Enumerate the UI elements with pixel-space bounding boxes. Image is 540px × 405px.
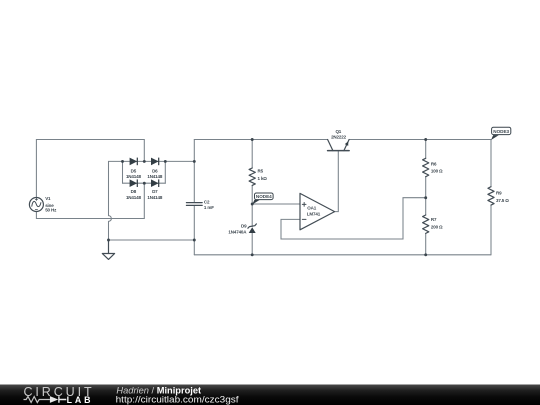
zener D9 cathode bar: [248, 224, 257, 228]
svg-text:2N2222: 2N2222: [331, 135, 347, 140]
resistor R7 zigzag: [423, 215, 429, 233]
wire bridge top row: [123, 160, 166, 162]
svg-text:R6: R6: [431, 161, 437, 166]
wire top rail right segment emitter to right rail: [349, 139, 491, 141]
junction node R6 R7 midpoint: [424, 196, 427, 199]
wire ground rail to loop left: [109, 239, 195, 241]
wire R6 R7 column leads: [425, 140, 427, 255]
svg-text:1 mF: 1 mF: [204, 205, 214, 210]
svg-text:1 kΩ: 1 kΩ: [258, 176, 268, 181]
zener D9 triangle: [249, 227, 256, 233]
wire op-amp output to Q1 base: [335, 151, 339, 212]
wire node4 to op-amp + input: [252, 203, 300, 205]
svg-text:Q1: Q1: [335, 129, 341, 134]
junction node bridge top-right: [164, 160, 167, 163]
svg-text:OA1: OA1: [307, 206, 316, 211]
junction node ground tee: [107, 239, 110, 242]
footer logo squiggle: [24, 397, 50, 403]
voltage source V1 plus mark: [35, 198, 37, 200]
voltage source V1 minus mark: [35, 209, 37, 211]
ground symbol triangle: [102, 240, 114, 259]
svg-text:D7: D7: [152, 189, 158, 194]
svg-text:1N4148: 1N4148: [126, 195, 142, 200]
svg-text:1N4148: 1N4148: [147, 174, 163, 179]
wire bridge right rail vertical: [164, 161, 166, 183]
svg-text:100 Ω: 100 Ω: [431, 168, 443, 173]
junction node NODE4: [251, 203, 254, 206]
op-amp plus input mark: [302, 203, 306, 207]
svg-text:50 Hz: 50 Hz: [45, 208, 57, 213]
wire loop left rail with capacitor gap: [193, 140, 195, 255]
node flag NODE4: [252, 193, 273, 205]
wire top rail left segment to Q1 collector: [194, 139, 327, 141]
svg-text:R5: R5: [258, 169, 264, 174]
junction node loop left at bridge output: [193, 160, 196, 163]
svg-text:http://circuitlab.com/czc3gsf: http://circuitlab.com/czc3gsf: [116, 395, 239, 405]
junction node bridge bottom-center: [143, 182, 146, 185]
wire bridge left rail to negative drop (with hop over V1 wire): [109, 161, 123, 240]
wire bridge output to loop left rail: [165, 160, 194, 162]
voltage source V1 circle: [29, 198, 43, 212]
svg-text:1N4148: 1N4148: [147, 195, 163, 200]
footer logo diode arrow: [50, 396, 58, 403]
svg-text:LM741: LM741: [307, 212, 321, 217]
node flag NODE3: [491, 127, 511, 140]
junction node R5 top: [251, 138, 254, 141]
junction node bridge top-center: [143, 160, 146, 163]
wire R5 leads: [251, 140, 253, 205]
svg-text:37.5 Ω: 37.5 Ω: [496, 198, 509, 203]
transistor Q1 emitter arrow: [345, 141, 349, 146]
wire V1 top to bridge top-center: [36, 140, 144, 198]
svg-text:1N4148: 1N4148: [126, 174, 142, 179]
svg-text:NODE4: NODE4: [256, 194, 272, 199]
voltage source V1 sine glyph: [32, 201, 41, 206]
svg-text:D5: D5: [131, 168, 137, 173]
svg-text:1N4740A: 1N4740A: [228, 230, 247, 235]
svg-text:V1: V1: [45, 196, 51, 201]
wire D9 leads: [251, 204, 253, 255]
capacitor C2 plates: [186, 203, 202, 206]
svg-text:D8: D8: [131, 189, 137, 194]
diode D7 triangle and bar: [151, 179, 159, 187]
junction node D9 bottom: [251, 253, 254, 256]
op-amp OA1 triangle: [300, 193, 335, 229]
footer bar: [0, 385, 540, 405]
diode D6 triangle and bar: [151, 158, 159, 166]
svg-text:NODE3: NODE3: [493, 129, 509, 134]
resistor R6 zigzag: [423, 158, 429, 176]
op-amp minus input mark: [302, 218, 306, 220]
transistor Q1 collector diagonal: [328, 140, 333, 151]
junction node ground rail at loop left: [193, 239, 196, 242]
junction node R6 top: [424, 138, 427, 141]
transistor Q1 base bar: [328, 150, 350, 152]
wire bridge bottom row: [123, 182, 166, 184]
svg-text:D6: D6: [152, 168, 158, 173]
diode D8 triangle and bar: [130, 179, 138, 187]
svg-text:LAB: LAB: [67, 395, 94, 405]
wire op-amp - input feedback loop: [281, 198, 426, 239]
diode D5 triangle and bar: [130, 158, 138, 166]
svg-text:200 Ω: 200 Ω: [431, 224, 443, 229]
svg-text:D9: D9: [241, 224, 247, 229]
resistor R5 zigzag: [249, 168, 255, 185]
transistor Q1 emitter diagonal: [344, 140, 349, 151]
svg-text:R7: R7: [431, 217, 437, 222]
wire V1 bottom to bridge bottom-center: [36, 183, 144, 218]
resistor R9 zigzag: [488, 187, 494, 205]
junction node bridge top-left: [121, 160, 124, 163]
wire right rail R9 leads: [490, 140, 492, 255]
wire bottom rail: [194, 254, 491, 256]
wire bridge left rail vertical: [122, 161, 124, 183]
svg-text:R9: R9: [496, 191, 502, 196]
junction node R7 bottom: [424, 253, 427, 256]
